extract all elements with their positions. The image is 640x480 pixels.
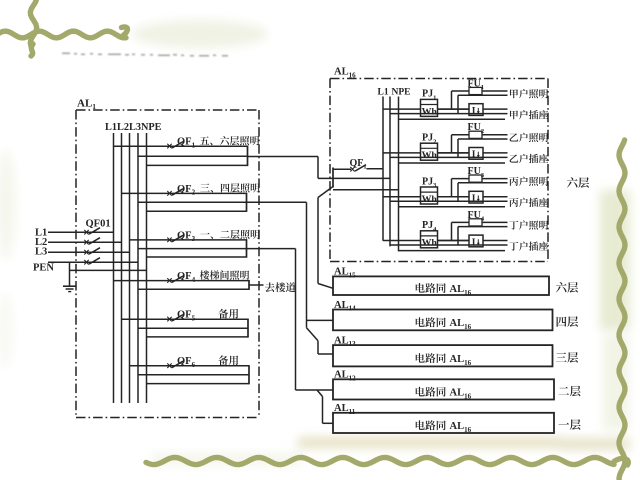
label 一、二层照明 [200, 230, 259, 239]
wire circuit QF5 neutral [138, 327, 248, 329]
wire circuit QF2 neutral [138, 201, 247, 203]
label 乙户插座 [510, 154, 549, 163]
wire meter output [438, 108, 470, 110]
label 三、四层照明 [200, 183, 259, 192]
wire into AL14 [307, 319, 334, 321]
svg-text:NPE: NPE [392, 88, 411, 98]
riser to fuse FU4 [451, 222, 453, 240]
breaker QF4 [114, 280, 250, 282]
wire circuit QF1 PE [147, 164, 248, 166]
wire circuit QF1 neutral [138, 155, 248, 157]
label 丁户照明 [509, 220, 548, 229]
breaker QF1 [114, 145, 248, 147]
bus L1 (AL16) [382, 97, 384, 241]
panel AL12 box [333, 379, 554, 399]
bus PE (AL1) [146, 133, 148, 403]
wire meter output [438, 240, 470, 242]
panel AL16 enclosure [330, 78, 548, 80]
panel AL15 box [333, 276, 549, 295]
wire socket PE [399, 118, 506, 120]
wire phase to meter PJ3 [383, 196, 421, 198]
wire circuit QF5 PE [147, 336, 249, 338]
main switch QF01 blade L2 [84, 240, 88, 245]
wire lighting phase out [482, 90, 508, 92]
label 电路同 AL16 (15) [416, 283, 446, 293]
breaker I4 (socket RCD) [469, 235, 483, 247]
fuse FU2 [469, 131, 482, 138]
wire socket neutral [390, 156, 508, 158]
wire neutral AL16 input [333, 177, 390, 179]
breaker QF1 (AL16) [333, 168, 351, 170]
riser lighting neutral [457, 139, 459, 157]
svg-text:I: I [472, 106, 476, 116]
label 甲户照明 [510, 89, 548, 98]
bus PE (AL16) [398, 97, 400, 252]
label 楼梯间照明 [200, 270, 249, 279]
wire lighting neutral [458, 94, 508, 96]
label 五、六层照明 [200, 136, 259, 145]
main switch QF01 blade L1 [84, 230, 88, 235]
svg-text:Wh: Wh [422, 106, 438, 117]
terminal bar circuit QF4 [248, 280, 250, 290]
bus N (AL1) [137, 133, 139, 403]
label 去楼道 [265, 282, 296, 292]
svg-text:QF01: QF01 [86, 218, 111, 229]
label 备用 QF5 [218, 309, 238, 319]
label 电路同 AL16 (11) [416, 420, 446, 430]
wire socket PE [399, 162, 506, 164]
riser lighting neutral [457, 95, 459, 113]
floor label 二层 [559, 386, 581, 397]
label 丙户照明 [509, 177, 548, 186]
wire circuit QF2 outgoing [247, 201, 307, 203]
fuse FU4 [469, 219, 482, 226]
floor label 三层 [556, 352, 578, 363]
wire PE AL16 input [333, 189, 399, 191]
wire socket PE [399, 250, 506, 252]
breaker I2 (socket RCD) [469, 148, 483, 160]
wire lighting phase out [482, 134, 508, 136]
label 电路同 AL16 (13) [416, 353, 446, 363]
label 乙户照明 [510, 133, 548, 142]
wire lighting neutral [458, 182, 508, 184]
riser wire QF3 to AL12/AL11 [295, 249, 297, 390]
node tap to AL15 riser [318, 187, 333, 198]
wire lighting neutral [458, 138, 508, 140]
wire socket neutral [390, 113, 508, 115]
label 备用 QF6 [218, 355, 238, 365]
svg-text:Wh: Wh [422, 150, 438, 161]
terminal bar circuit QF1 [247, 146, 249, 167]
bus N (AL16) [389, 97, 391, 247]
breaker QF2 [122, 192, 247, 194]
breaker QF6 [130, 365, 250, 367]
incoming wire L2 [48, 241, 122, 243]
terminal bar circuit QF2 [246, 193, 248, 212]
breaker I3 (socket RCD) [469, 191, 483, 203]
wire circuit QF3 outgoing [247, 248, 296, 250]
riser to fuse FU3 [451, 179, 453, 197]
wire meter output [438, 152, 470, 154]
riser wire to AL15 [317, 198, 319, 284]
jog wire to AL13 [307, 328, 319, 341]
bus L2 (AL1) [121, 133, 123, 403]
wire phase to meter PJ1 [383, 108, 421, 110]
riser lighting neutral [457, 227, 459, 245]
panel AL13 box [333, 345, 553, 366]
wire socket PE [399, 206, 506, 208]
svg-text:L1: L1 [378, 88, 389, 98]
wire into AL12 [296, 389, 334, 391]
breaker I1 (socket RCD) [469, 104, 483, 116]
incoming wire L3 [48, 251, 130, 253]
panel AL11 box [333, 413, 554, 433]
svg-text:PEN: PEN [33, 262, 54, 273]
riser to fuse FU1 [451, 91, 453, 109]
floor label 六层 (AL16) [567, 177, 589, 188]
wire QF1 feed riser to AL16 [317, 157, 319, 179]
terminal bar circuit QF5 [247, 319, 249, 338]
wire PEN bond to PE bus [70, 269, 147, 271]
wire circuit QF6 neutral [138, 374, 249, 376]
breaker QF3 [130, 239, 247, 241]
wire socket neutral [390, 200, 508, 202]
distribution board AL1 enclosure [76, 109, 259, 111]
fuse FU1 [469, 87, 482, 94]
fuse FU3 [469, 175, 482, 182]
bus L1 (AL1) [113, 133, 115, 403]
wire meter output [438, 196, 470, 198]
svg-text:I: I [472, 150, 476, 160]
incoming wire PEN [48, 261, 138, 263]
energy meter PJ2 (Wh) [421, 143, 438, 160]
label 电路同 AL16 (12) [416, 387, 446, 397]
riser wire QF2 to AL14/AL13 [306, 202, 308, 327]
energy meter PJ1 (Wh) [421, 99, 438, 116]
main switch QF01 blade PEN [84, 260, 88, 265]
ground [63, 285, 76, 287]
riser to fuse FU2 [451, 135, 453, 153]
wire circuit QF2 PE [147, 210, 247, 212]
svg-text:L1L2L3NPE: L1L2L3NPE [105, 122, 162, 133]
wire circuit QF1 outgoing [248, 156, 319, 158]
wire phase to meter PJ2 [383, 152, 421, 154]
wire lighting phase out [482, 178, 508, 180]
svg-text:Wh: Wh [422, 194, 438, 205]
wire circuit QF6 PE [147, 383, 250, 385]
wire circuit QF4 outgoing [249, 284, 264, 286]
wire lighting neutral [458, 226, 508, 228]
wire circuit QF4 neutral [138, 288, 249, 290]
incoming wire L1 [48, 231, 114, 233]
jog wire to AL11 [317, 390, 323, 397]
svg-text:Wh: Wh [422, 238, 438, 249]
panel AL14 box [333, 310, 553, 331]
riser lighting neutral [457, 183, 459, 201]
label 电路同 AL16 (14) [416, 317, 446, 327]
main switch QF01 blade L3 [84, 250, 88, 255]
wire circuit QF3 neutral [138, 248, 247, 250]
energy meter PJ3 (Wh) [421, 187, 438, 204]
energy meter PJ4 (Wh) [421, 231, 438, 248]
wire PEN to earth [69, 262, 71, 286]
label 丁户插座 [509, 241, 548, 250]
svg-text:I: I [472, 238, 476, 248]
wire socket neutral [390, 244, 508, 246]
svg-text:L3: L3 [35, 247, 47, 258]
floor label 六层 [556, 282, 578, 293]
svg-text:I: I [472, 194, 476, 204]
wire circuit QF3 PE [147, 256, 247, 258]
terminal bar AL16 input [332, 168, 334, 188]
label 甲户插座 [510, 110, 548, 119]
floor label 一层 [558, 419, 580, 430]
floor label 四层 [557, 316, 579, 327]
breaker QF5 [122, 318, 249, 320]
wire phase to meter PJ4 [383, 240, 421, 242]
bus L3 (AL1) [129, 133, 131, 403]
terminal bar circuit QF6 [248, 365, 250, 384]
wire lighting phase out [482, 221, 508, 223]
label 丙户插座 [509, 198, 548, 207]
terminal bar circuit QF3 [246, 239, 248, 258]
